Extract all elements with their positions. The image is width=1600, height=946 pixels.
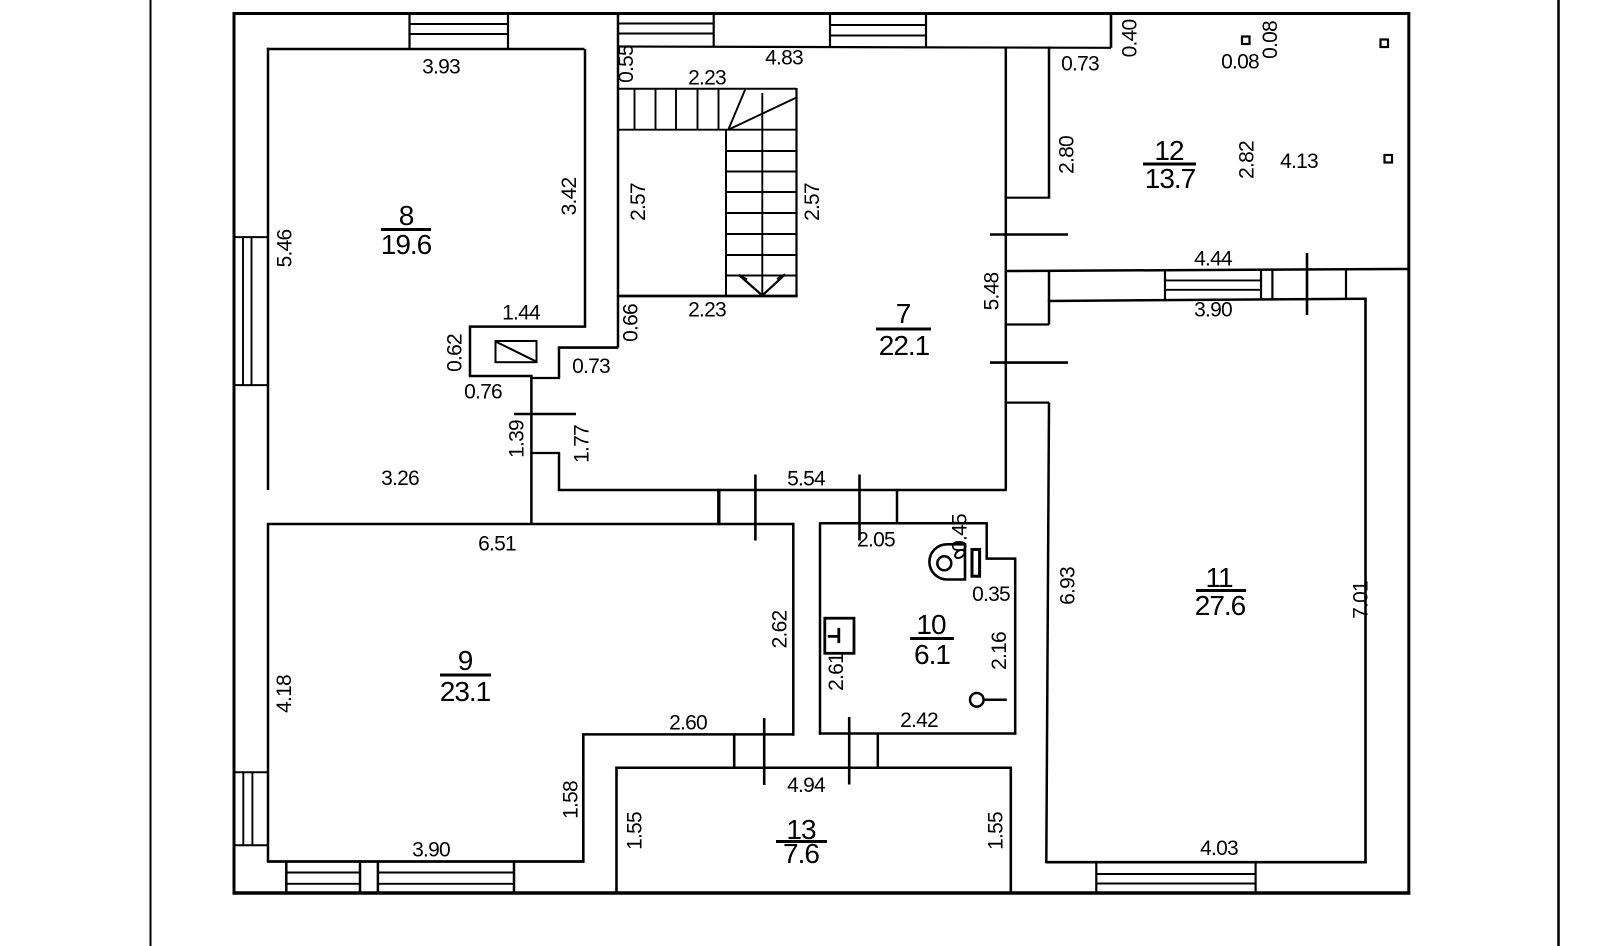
window W1 top (room8) — [410, 14, 509, 50]
door tick room13 right — [848, 717, 851, 785]
svg-text:5.54: 5.54 — [787, 468, 826, 491]
sink tap symbol — [828, 628, 839, 643]
svg-text:6.93: 6.93 — [1057, 567, 1080, 605]
marker square 1 room12 — [1242, 37, 1250, 45]
svg-text:0.40: 0.40 — [1119, 20, 1142, 58]
svg-text:2.23: 2.23 — [688, 299, 726, 322]
wall room9 bottom — [267, 860, 585, 863]
svg-text:2.80: 2.80 — [1056, 136, 1079, 174]
svg-text:4.83: 4.83 — [765, 47, 803, 70]
fraction bar room9 — [440, 674, 491, 677]
door tick room9 — [754, 475, 757, 541]
wall rooms9/10 top lower line left — [267, 523, 794, 526]
fraction bar room13 — [776, 840, 827, 843]
wall room13 left — [615, 767, 618, 894]
svg-text:2.60: 2.60 — [669, 712, 707, 735]
toilet small oval — [954, 548, 966, 560]
wall room10 right step vertical — [985, 522, 988, 559]
svg-text:4.94: 4.94 — [787, 774, 826, 797]
corridor wall right — [819, 522, 822, 735]
window W7 bottom (room9 b) — [378, 862, 514, 894]
svg-text:6.51: 6.51 — [478, 533, 516, 556]
svg-text:0.08: 0.08 — [1259, 21, 1282, 59]
svg-text:23.1: 23.1 — [440, 676, 491, 707]
door jamb cap y198 — [1005, 197, 1051, 199]
svg-text:2.61: 2.61 — [825, 653, 848, 691]
wall inner top (stair to room12 notch) — [618, 47, 1111, 48]
svg-text:0.73: 0.73 — [572, 355, 610, 378]
corridor wall left — [792, 523, 795, 736]
closet left wall — [469, 325, 472, 376]
page fold line right — [1557, 0, 1560, 946]
svg-text:4.44: 4.44 — [1194, 248, 1233, 271]
toilet bowl circle — [937, 556, 951, 570]
window W8 bottom (room11) — [1096, 862, 1255, 893]
window W5 left (room9) — [234, 772, 268, 845]
marker square 3 room12 — [1385, 155, 1393, 163]
svg-text:13.7: 13.7 — [1145, 163, 1196, 194]
svg-text:1.55: 1.55 — [624, 812, 647, 850]
door tick room13 left — [763, 718, 766, 785]
svg-text:2.05: 2.05 — [857, 529, 895, 552]
wall end cap — [896, 489, 899, 525]
fraction bar room8 — [381, 228, 431, 231]
door tick room11 right — [1306, 253, 1309, 315]
svg-text:2.42: 2.42 — [900, 709, 938, 732]
svg-text:2.23: 2.23 — [688, 67, 726, 90]
window W9 cap right — [1260, 270, 1262, 300]
toilet tank — [972, 550, 980, 577]
stair lower flight left edge — [725, 130, 727, 296]
svg-text:0.62: 0.62 — [444, 334, 467, 372]
svg-text:7.01: 7.01 — [1350, 581, 1373, 619]
svg-text:2.62: 2.62 — [769, 611, 792, 649]
svg-text:1.58: 1.58 — [560, 781, 583, 819]
wall room12 bottom upper line — [1005, 269, 1409, 271]
svg-text:19.6: 19.6 — [381, 229, 432, 260]
wall room13 right — [1009, 767, 1012, 894]
svg-text:3.90: 3.90 — [1194, 299, 1232, 322]
svg-text:1.55: 1.55 — [985, 812, 1008, 850]
vent shaft diagonal — [497, 342, 536, 361]
wall room8 top — [267, 48, 585, 51]
svg-text:3.90: 3.90 — [412, 839, 450, 862]
wall end cap room11 top — [1345, 269, 1347, 299]
stair lower flight treads — [726, 151, 797, 276]
window W4 left (room8) — [234, 237, 268, 385]
marker square 2 room12 — [1381, 40, 1389, 48]
wall pair left line (rooms 8/9 side) — [530, 376, 533, 524]
outer wall bottom — [233, 891, 1411, 895]
svg-text:2.82: 2.82 — [1236, 141, 1259, 179]
wall pair right line lower segment — [558, 453, 561, 490]
door tick room12 — [990, 233, 1068, 236]
wall rooms9/13 top line — [583, 733, 793, 736]
svg-text:5.46: 5.46 — [274, 230, 297, 268]
window W6 bottom (room9 a) — [286, 862, 360, 894]
wall room10 bottom — [819, 732, 1017, 735]
wall room11 right — [1364, 298, 1367, 864]
svg-text:2.57: 2.57 — [627, 183, 650, 221]
svg-text:5.48: 5.48 — [981, 273, 1004, 311]
wall end cap room13 left — [733, 733, 736, 769]
wall room11 left upper segment — [1048, 47, 1051, 198]
svg-text:3.26: 3.26 — [381, 467, 419, 490]
svg-text:10: 10 — [916, 609, 946, 640]
wall pair right line upper segment — [558, 348, 561, 378]
fraction bar room7 — [876, 328, 931, 331]
sink square room10 — [825, 618, 854, 653]
svg-text:11: 11 — [1205, 562, 1232, 593]
svg-text:1.44: 1.44 — [502, 302, 541, 325]
closet top wall 1.44 — [470, 325, 586, 328]
stair direction arrow — [739, 275, 785, 296]
door jamb cap y324 — [1005, 323, 1050, 325]
wall room7 bottom upper line — [558, 489, 1007, 492]
window W9 glazing lines — [1165, 280, 1261, 289]
svg-text:22.1: 22.1 — [879, 330, 930, 361]
wall room10 right — [1014, 557, 1017, 734]
wall room11 top lower line — [1048, 299, 1366, 301]
closet bottom wall — [469, 375, 533, 378]
wall room11 left mid segment — [1048, 271, 1051, 325]
svg-text:2.16: 2.16 — [988, 632, 1011, 670]
stair middle string line — [761, 93, 763, 296]
door jamb cap bottom — [530, 452, 560, 454]
svg-text:0.45: 0.45 — [949, 514, 972, 552]
wall room10 top lower line — [820, 522, 987, 525]
stair bottom wall — [617, 295, 798, 298]
door jamb cap top — [530, 377, 560, 379]
svg-text:9: 9 — [458, 645, 473, 676]
svg-text:3.93: 3.93 — [422, 56, 460, 79]
vent shaft rect — [496, 341, 537, 362]
wall room12 notch vertical — [1110, 14, 1113, 48]
wall end cap room13 right — [877, 733, 880, 769]
door tick room10 — [858, 475, 861, 541]
svg-text:0.08: 0.08 — [1221, 51, 1259, 74]
svg-text:7: 7 — [896, 298, 911, 329]
window W9 cap left — [1164, 270, 1166, 300]
window W3 top (room7) — [830, 14, 926, 48]
svg-text:8: 8 — [399, 200, 414, 231]
wall room9 left — [267, 524, 270, 862]
stair right wall — [795, 88, 797, 296]
door tick room8-room7 — [514, 413, 576, 416]
outer wall right — [1407, 12, 1410, 895]
wall room9 step vertical — [582, 733, 585, 863]
outer wall top — [233, 12, 1411, 15]
svg-text:4.03: 4.03 — [1200, 837, 1238, 860]
fraction bar room11 — [1196, 589, 1246, 592]
stair upper flight treads — [635, 89, 719, 130]
svg-text:4.13: 4.13 — [1280, 150, 1318, 173]
svg-text:3.42: 3.42 — [558, 178, 581, 216]
stair winder diagonals — [728, 89, 796, 130]
svg-text:6.1: 6.1 — [914, 639, 950, 670]
svg-text:27.6: 27.6 — [1195, 590, 1246, 621]
wall stub above room7 left — [558, 346, 618, 349]
stair top line — [618, 88, 797, 90]
outer wall left — [233, 12, 236, 895]
radiator circle and stub — [970, 693, 984, 707]
stair left wall — [617, 14, 620, 348]
wall room11 bottom — [1047, 861, 1367, 864]
window W9 end cap — [1271, 270, 1273, 300]
wall room13 top — [615, 766, 1012, 769]
svg-text:0.73: 0.73 — [1061, 53, 1099, 76]
wall room8 left — [267, 48, 270, 490]
door jamb cap y403 — [1005, 402, 1050, 404]
wall room11 left lower segment — [1046, 403, 1049, 864]
stair flight divider line — [618, 129, 797, 131]
fraction bar room10 — [910, 637, 954, 640]
svg-text:12: 12 — [1154, 135, 1184, 166]
svg-text:2.57: 2.57 — [801, 183, 824, 221]
fraction bar room12 — [1143, 163, 1196, 166]
svg-text:1.39: 1.39 — [506, 420, 529, 458]
svg-text:4.18: 4.18 — [273, 675, 296, 713]
svg-text:0.55: 0.55 — [615, 45, 638, 83]
svg-text:0.66: 0.66 — [620, 304, 643, 342]
wall pair rooms7/11 left line — [1005, 47, 1008, 491]
window W2 top (stairs) — [713, 14, 715, 47]
toilet bowl — [929, 544, 965, 579]
wall end cap thick — [717, 489, 720, 525]
svg-text:1.77: 1.77 — [571, 425, 594, 463]
door tick room11 upper — [990, 361, 1068, 364]
wall room8 right — [584, 49, 587, 327]
svg-text:0.76: 0.76 — [464, 381, 502, 404]
wall room10 step horizontal — [986, 557, 1016, 560]
svg-text:0.35: 0.35 — [972, 583, 1010, 606]
page fold line left — [150, 0, 152, 946]
